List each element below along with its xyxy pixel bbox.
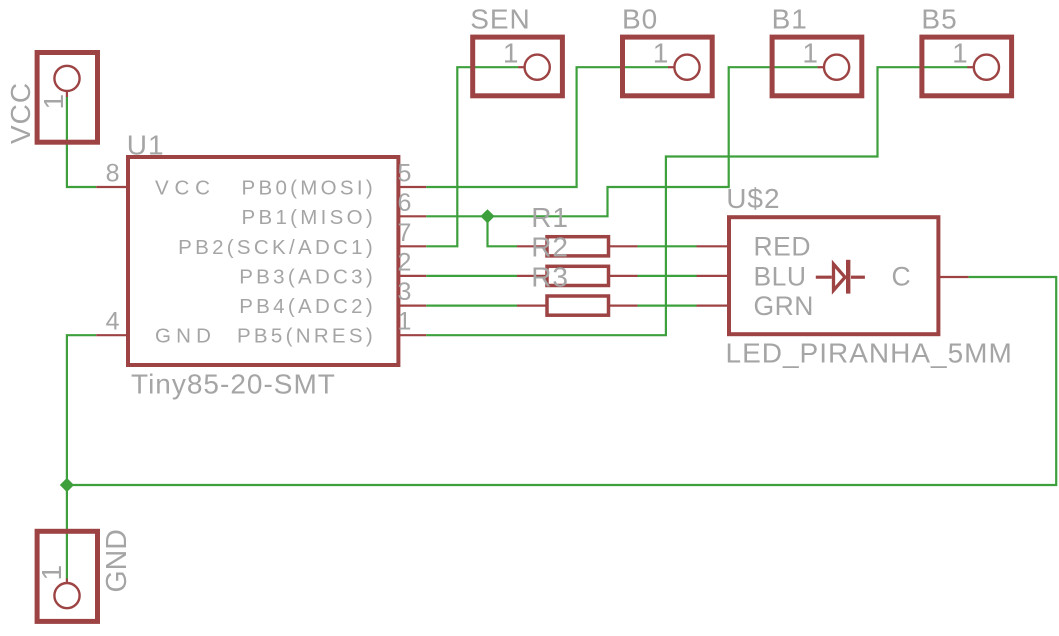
svg-text:PB3(ADC3): PB3(ADC3) bbox=[239, 265, 376, 288]
svg-text:VCC: VCC bbox=[5, 82, 36, 144]
wire net BLU: R3 to LED BLU pin bbox=[638, 275, 697, 277]
svg-text:PB0(MOSI): PB0(MOSI) bbox=[242, 177, 377, 200]
svg-text:1: 1 bbox=[802, 38, 819, 69]
pad B5 bbox=[921, 4, 1011, 96]
wire net RED: R2 to LED RED pin bbox=[638, 245, 697, 247]
svg-text:Tiny85-20-SMT: Tiny85-20-SMT bbox=[131, 369, 336, 400]
svg-text:4: 4 bbox=[106, 308, 120, 336]
resistor R1 bbox=[517, 202, 638, 256]
pad GND bbox=[36, 529, 133, 621]
pad B0 bbox=[622, 4, 712, 96]
svg-text:1: 1 bbox=[38, 93, 69, 110]
pad B1 bbox=[772, 4, 862, 96]
svg-text:3: 3 bbox=[398, 278, 412, 306]
resistor R2 bbox=[517, 232, 638, 286]
svg-text:VCC: VCC bbox=[155, 177, 216, 200]
IC U1 Tiny85-20-SMT bbox=[127, 129, 399, 399]
svg-text:B1: B1 bbox=[772, 4, 808, 35]
svg-text:GND: GND bbox=[101, 529, 133, 592]
svg-text:GND: GND bbox=[155, 325, 216, 348]
resistor R3 bbox=[517, 261, 638, 315]
pin 3 PB4 stub bbox=[239, 278, 426, 318]
svg-text:1: 1 bbox=[398, 308, 412, 336]
pin GRN stub bbox=[697, 291, 814, 321]
pin 5 PB0 stub bbox=[242, 160, 427, 200]
pad SEN bbox=[470, 4, 562, 96]
svg-text:1: 1 bbox=[503, 38, 520, 69]
wire net GND: junction to LED cathode bbox=[67, 277, 1056, 485]
svg-text:BLU: BLU bbox=[754, 261, 807, 291]
svg-text:1: 1 bbox=[36, 564, 67, 581]
svg-text:B0: B0 bbox=[622, 4, 658, 35]
pin C stub bbox=[892, 261, 969, 291]
diode LED symbol bbox=[816, 260, 865, 294]
pin 7 PB2 stub bbox=[178, 219, 426, 259]
wire net pin3 row to resistor row 3 bbox=[426, 305, 517, 307]
svg-text:R3: R3 bbox=[531, 261, 569, 292]
svg-text:U$2: U$2 bbox=[726, 183, 780, 214]
pin 1 PB5 stub bbox=[237, 308, 426, 348]
wire net GRN: resistor 3 to LED GRN pin bbox=[638, 305, 697, 307]
svg-text:8: 8 bbox=[106, 160, 120, 188]
svg-text:PB2(SCK/ADC1): PB2(SCK/ADC1) bbox=[178, 236, 376, 259]
svg-text:1: 1 bbox=[952, 38, 969, 69]
svg-text:GRN: GRN bbox=[754, 291, 814, 321]
wire net PB5: pin 1 to pad B5 bbox=[426, 67, 967, 335]
svg-text:PB1(MISO): PB1(MISO) bbox=[242, 206, 377, 229]
svg-text:PB5(NRES): PB5(NRES) bbox=[237, 325, 376, 348]
svg-text:2: 2 bbox=[398, 248, 412, 276]
node junction GND bbox=[60, 478, 74, 492]
wire net PB1: pad B1 to pin 6 bbox=[426, 67, 818, 216]
svg-text:1: 1 bbox=[653, 38, 670, 69]
svg-text:U1: U1 bbox=[127, 129, 165, 160]
wire VCC net: pad to pin 8 bbox=[67, 97, 96, 188]
svg-text:5: 5 bbox=[398, 160, 412, 188]
svg-text:6: 6 bbox=[398, 189, 412, 217]
wire net GND: pin 4 down to GND pad bbox=[67, 335, 96, 579]
pin 6 PB1 stub bbox=[242, 189, 427, 229]
pad VCC bbox=[5, 53, 98, 145]
svg-text:PB4(ADC2): PB4(ADC2) bbox=[239, 295, 376, 318]
wire net PB2: pin 7 to pad SEN bbox=[426, 67, 518, 246]
svg-text:SEN: SEN bbox=[470, 4, 531, 35]
node junction PB1 bbox=[480, 209, 494, 223]
svg-text:LED_PIRANHA_5MM: LED_PIRANHA_5MM bbox=[726, 338, 1013, 369]
svg-text:B5: B5 bbox=[921, 4, 957, 35]
pin 8 VCC stub bbox=[96, 160, 215, 200]
pin 2 PB3 stub bbox=[239, 248, 426, 288]
pin RED stub bbox=[697, 232, 811, 262]
svg-text:7: 7 bbox=[398, 219, 412, 247]
pin 4 GND stub bbox=[96, 308, 216, 348]
svg-text:C: C bbox=[892, 261, 912, 291]
svg-text:R2: R2 bbox=[531, 232, 569, 263]
pin BLU stub bbox=[697, 261, 807, 291]
LED U$2 LED_PIRANHA_5MM bbox=[726, 183, 1013, 369]
wire net PB3: pin 2 to resistor row 2 bbox=[426, 275, 517, 277]
svg-text:R1: R1 bbox=[531, 202, 569, 233]
wire net PB1 branch: junction to R2 bbox=[488, 216, 518, 246]
wire net PB0: pin 5 to pad B0 bbox=[426, 67, 668, 187]
svg-text:RED: RED bbox=[754, 232, 811, 262]
